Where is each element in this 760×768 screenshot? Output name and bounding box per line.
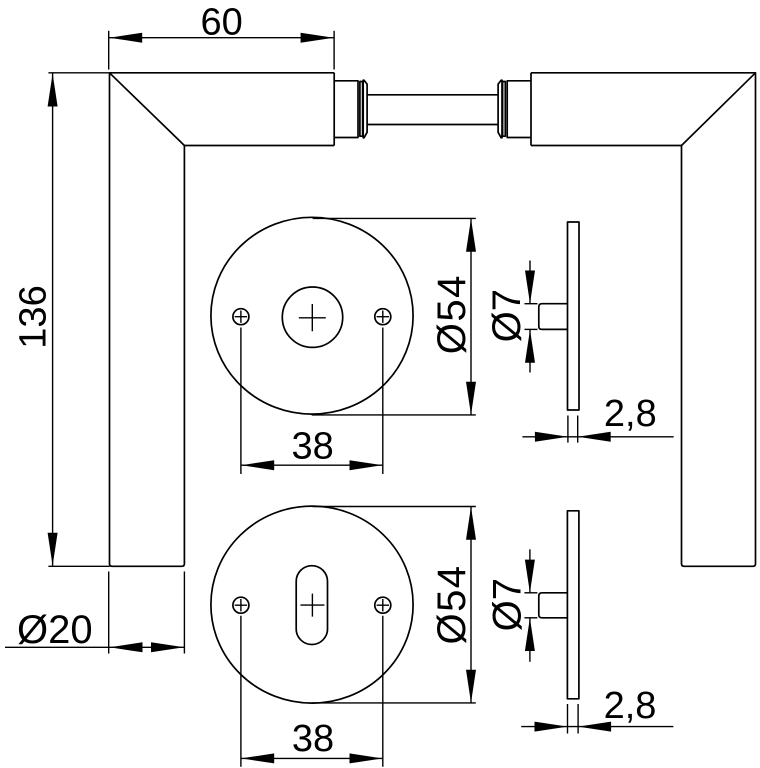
dim D7 top line upper <box>529 261 531 304</box>
dim D7 top tick upper <box>525 303 538 305</box>
svg-text:Ø54: Ø54 <box>430 564 474 644</box>
dim D54 top extension top <box>313 217 476 219</box>
dim 60 arrow right <box>301 33 334 43</box>
dim 38 bottom arrow right <box>350 753 383 763</box>
dim 38 top arrow right <box>350 460 383 470</box>
side view 1 plate <box>568 222 580 410</box>
left handle lever outline <box>110 73 335 567</box>
dim D7 top arrow up <box>525 330 535 363</box>
dim 20 arrow left <box>110 642 143 652</box>
dim D7 top line lower <box>529 330 531 373</box>
dim D54 bottom line <box>470 507 472 703</box>
svg-text:38: 38 <box>292 718 334 760</box>
dim 2,8 top arrow right-pointing <box>535 432 568 442</box>
dim D54 top arrow down <box>466 382 476 415</box>
dim 2,8 bottom extension left <box>567 704 569 734</box>
dim 60 extension line right <box>333 31 335 70</box>
dim 136 line <box>52 74 54 566</box>
right bearing collar <box>498 80 502 138</box>
dim 60 line <box>109 37 334 39</box>
dim D54 bottom extension top <box>313 506 476 508</box>
dim 60 extension line left <box>108 31 110 70</box>
dim 38 bottom extension left <box>240 616 242 767</box>
rosette 1 screw right <box>375 309 391 325</box>
right neck ring <box>503 82 506 137</box>
dim 38 top line <box>241 464 383 466</box>
dim 38 bottom extension right <box>382 616 384 767</box>
dim 20 extension line right <box>183 572 185 654</box>
dim 38 bottom arrow left <box>241 753 274 763</box>
right handle neck <box>507 81 531 138</box>
dim 2,8 top arrow left-pointing <box>578 432 611 442</box>
spindle bottom line <box>367 124 498 126</box>
dim 136 extension line top <box>48 72 109 74</box>
dim D7 bottom line upper <box>529 549 531 592</box>
dim 2,8 top extension right <box>577 416 579 443</box>
side view 2 plate <box>567 511 579 699</box>
dim 136 extension line bottom <box>48 565 109 567</box>
svg-text:Ø7: Ø7 <box>485 289 529 342</box>
dim 136 arrow up <box>48 74 58 107</box>
rosette 2 center cross <box>300 594 324 617</box>
rosette 2 key slot <box>296 566 327 645</box>
right handle body end edge <box>530 73 532 146</box>
dim 2,8 top line <box>522 436 673 438</box>
rosette 2 screw right <box>375 597 391 613</box>
svg-text:2,8: 2,8 <box>604 393 657 435</box>
dim 20 extension line left <box>108 572 110 654</box>
dim 38 top extension right <box>382 328 384 475</box>
right handle miter line <box>682 73 756 146</box>
dim 38 top extension left <box>240 328 242 475</box>
svg-text:Ø54: Ø54 <box>430 274 474 354</box>
dim D54 top extension bottom <box>312 414 476 416</box>
dim 20 arrow right <box>151 642 184 652</box>
dim D54 top line <box>470 219 472 415</box>
rosette 1 screw left <box>233 309 249 325</box>
dim 60 arrow left <box>109 33 142 43</box>
side view 1 spindle stub <box>539 304 568 330</box>
dim 2,8 bottom arrow left-pointing <box>578 722 611 732</box>
dim D54 bottom arrow up <box>466 507 476 540</box>
dim D7 bottom tick upper <box>524 592 537 594</box>
dim 2,8 top extension left <box>567 416 569 443</box>
svg-text:2,8: 2,8 <box>604 685 657 727</box>
left handle miter line <box>110 73 185 146</box>
left bearing collar <box>363 80 367 138</box>
svg-text:38: 38 <box>291 426 333 468</box>
dim D7 top tick lower <box>525 328 538 330</box>
dim 38 top arrow left <box>241 460 274 470</box>
dim D7 bottom arrow up <box>525 618 535 651</box>
svg-text:136: 136 <box>12 285 54 348</box>
side view 2 spindle stub <box>539 593 568 618</box>
dim D54 bottom arrow down <box>466 670 476 703</box>
dim D7 bottom line lower <box>529 618 531 662</box>
dim 136 arrow down <box>48 533 58 566</box>
svg-text:Ø20: Ø20 <box>17 608 93 652</box>
dim D7 bottom tick lower <box>524 617 537 619</box>
right handle lever outline <box>531 73 756 567</box>
dim D7 top arrow down <box>525 271 535 304</box>
dim D54 bottom extension bottom <box>312 702 476 704</box>
dim 2,8 bottom extension right <box>577 704 579 734</box>
rosette 1 inner circle <box>282 287 342 347</box>
dim 38 bottom line <box>241 757 383 759</box>
left handle body end edge <box>333 73 335 146</box>
rosette 2 outer circle <box>211 506 413 703</box>
rosette 1 outer circle <box>211 217 413 414</box>
left neck ring <box>360 82 363 137</box>
dim 2,8 bottom arrow right-pointing <box>535 722 568 732</box>
dim 20 line <box>5 646 184 648</box>
rosette 1 center cross <box>299 304 326 331</box>
svg-text:60: 60 <box>200 2 242 44</box>
left handle neck <box>334 81 358 138</box>
dim D54 top arrow up <box>466 219 476 252</box>
rosette 2 screw left <box>233 597 249 613</box>
dim 2,8 bottom line <box>521 726 673 728</box>
spindle top line <box>367 94 498 96</box>
dim D7 bottom arrow down <box>525 560 535 593</box>
svg-text:Ø7: Ø7 <box>486 578 530 631</box>
